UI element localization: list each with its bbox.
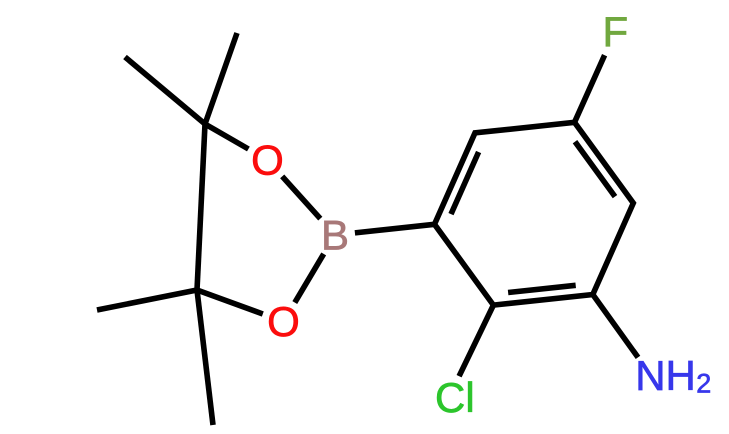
benzene ring (edges C1-C2-C3-C4-C5-C6) [435,122,634,305]
junction dot at pinacol C1p [202,121,208,127]
bond C3-N [593,295,638,358]
bond O1-C1p [205,124,248,149]
svg-text:NH: NH [635,352,696,399]
methyl from C1p (up-left) [125,57,205,124]
methyl from C2p (down) [197,290,213,425]
bond C1p-C2p [197,124,205,290]
bond C1-B [355,224,435,233]
bond O2-C2p [197,290,263,314]
svg-text:F: F [602,8,628,55]
svg-text:B: B [321,212,349,259]
bond B-O2 [295,254,324,303]
bond B-O1 [282,176,320,218]
svg-text:O: O [267,298,300,345]
svg-text:Cl: Cl [435,374,475,421]
methyl from C2p (left) [97,290,197,310]
bond C2-Cl [459,305,493,376]
svg-text:O: O [251,137,284,184]
bond C5-F [575,55,605,122]
double bond inner C2=C3 [508,285,576,292]
double bond inner C4=C5 [575,142,615,197]
svg-text:2: 2 [696,368,711,398]
methyl from C1p (up-right) [205,33,237,124]
double bond inner C6=C1 [451,152,479,214]
junction dot at pinacol C2p [194,287,200,293]
